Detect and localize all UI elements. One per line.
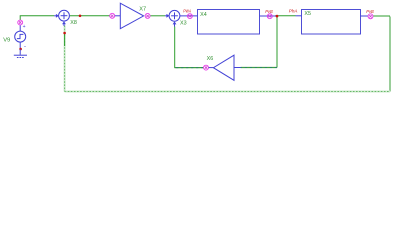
svg-text:PWA: PWA	[183, 8, 191, 13]
svg-text:+: +	[23, 24, 26, 30]
svg-text:-: -	[24, 44, 26, 50]
X8 left input pin arrow	[54, 15, 56, 17]
pin bubble X4 input	[187, 14, 192, 19]
X6 input pin	[234, 67, 241, 69]
block X4	[198, 10, 260, 35]
op-amp sum X8	[59, 10, 70, 21]
op-amp sum X3	[169, 10, 180, 21]
X3 left input pin arrow	[165, 15, 167, 17]
outer feedback wire: right edge down	[389, 17, 391, 92]
svg-text:PvB: PvB	[265, 9, 273, 14]
pin bubble X7 input	[110, 13, 115, 18]
source V9	[15, 25, 26, 48]
X8 bottom input pin arrow	[63, 24, 65, 26]
ground 0	[14, 55, 27, 57]
svg-text:X8: X8	[70, 20, 77, 26]
outer feedback wire: bottom run	[65, 91, 390, 93]
wire bubble to triangle	[115, 15, 120, 17]
inner feedback wire: junction down to X6 input level	[276, 16, 278, 68]
X6 output stub	[209, 67, 214, 69]
junction dot below X8	[63, 32, 66, 35]
pin bubble X5 output	[368, 14, 373, 19]
wire below X8 pin	[64, 32, 66, 46]
pin bubble X7 output	[145, 13, 150, 18]
svg-text:X5: X5	[304, 11, 311, 17]
svg-text:X3: X3	[180, 20, 187, 26]
wire X4 output to X5 input	[275, 15, 295, 17]
X3 bottom input pin arrow	[174, 24, 176, 26]
svg-text:X6: X6	[207, 56, 214, 62]
inner feedback wire: horizontal into X6 input	[241, 67, 277, 69]
junction dot under V9	[19, 48, 22, 51]
svg-text:V9: V9	[3, 38, 10, 44]
inner feedback wire: X6 output left then up to X3 bottom input	[175, 67, 204, 69]
junction dot after X4	[276, 15, 279, 18]
wire X5 output to right edge	[361, 15, 369, 17]
wire from V9 plus terminal up and right to X8 input	[20, 16, 54, 20]
X3 output pin	[180, 15, 197, 17]
wire X7 output to X3 input	[150, 15, 165, 17]
X5 input pin	[296, 15, 302, 17]
junction dot at X8 output	[79, 15, 82, 18]
svg-text:PhA: PhA	[289, 9, 298, 14]
pin bubble X4 output	[267, 14, 272, 19]
op-amp gain X6 (feedback, points left)	[213, 55, 234, 80]
X4 output pin	[260, 15, 278, 17]
op-amp gain X7	[120, 3, 143, 29]
block X5	[302, 10, 361, 35]
svg-text:PvB: PvB	[366, 9, 374, 14]
wire X8 output to X7 input	[70, 15, 110, 17]
pin bubble X6 output	[204, 65, 209, 70]
V9 plus terminal bubble	[18, 20, 23, 25]
svg-text:X4: X4	[200, 12, 207, 18]
svg-text:X7: X7	[139, 7, 146, 13]
outer feedback wire: left rise to X8 minus input	[64, 26, 66, 92]
wire V9 to ground	[19, 49, 21, 55]
